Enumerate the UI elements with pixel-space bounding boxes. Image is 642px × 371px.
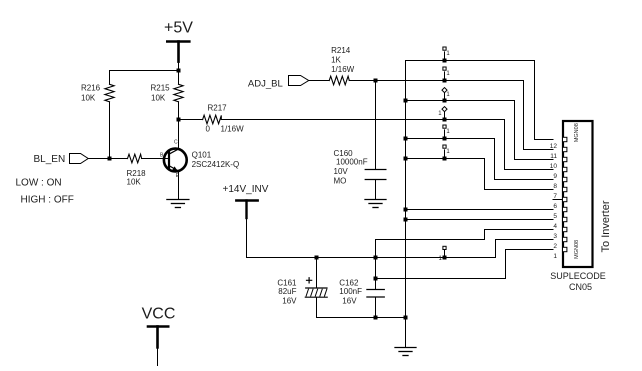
- wire BL_EN to R218: [88, 158, 127, 160]
- svg-text:CN05: CN05: [569, 282, 592, 292]
- ground Q101 emitter: [167, 200, 189, 208]
- port ADJ_BL: [248, 76, 309, 90]
- node rail C162 junction: [374, 256, 378, 260]
- svg-text:10K: 10K: [127, 177, 142, 186]
- svg-text:R217: R217: [208, 104, 228, 113]
- svg-text:16V: 16V: [282, 296, 297, 305]
- wire bus B to C160: [375, 81, 377, 170]
- wire bottom rail: [317, 317, 406, 319]
- node R214 output junction: [374, 79, 378, 83]
- svg-text:SUPLECODE: SUPLECODE: [550, 271, 606, 281]
- svg-text:Q101: Q101: [192, 151, 212, 160]
- svg-text:5: 5: [553, 213, 557, 220]
- svg-text:To Inverter: To Inverter: [600, 200, 612, 252]
- node bus A pin5 row: [404, 208, 408, 212]
- wire pin5 row: [406, 209, 554, 211]
- testpoint row3 diamond: [442, 88, 450, 103]
- power VCC: [142, 306, 176, 367]
- port BL_EN: [34, 154, 89, 165]
- svg-text:10V: 10V: [334, 167, 349, 176]
- svg-text:8: 8: [553, 183, 557, 190]
- svg-text:10K: 10K: [81, 94, 96, 103]
- testpoint rail: [439, 246, 447, 261]
- svg-text:ADJ_BL: ADJ_BL: [248, 79, 283, 90]
- power +5V: [164, 20, 193, 71]
- node bus A row3: [404, 99, 408, 103]
- power +14V_INV: [223, 184, 269, 258]
- capacitor C160: [334, 149, 386, 200]
- svg-text:10: 10: [550, 163, 558, 170]
- testpoint row1: [443, 47, 451, 63]
- svg-text:82uF: 82uF: [278, 287, 296, 296]
- svg-text:MGN08: MGN08: [574, 240, 580, 259]
- wire bus A ground: [405, 61, 407, 348]
- wire row2 R214 output to pin11 staircase: [349, 81, 553, 150]
- node bottom rail bus A: [404, 316, 408, 320]
- svg-text:4: 4: [553, 223, 557, 230]
- svg-text:HIGH : OFF: HIGH : OFF: [21, 195, 74, 206]
- svg-text:2SC2412K-Q: 2SC2412K-Q: [192, 160, 240, 169]
- svg-text:7: 7: [553, 193, 557, 200]
- resistor R214: [329, 46, 354, 85]
- svg-text:LOW : ON: LOW : ON: [16, 178, 62, 189]
- testpoint row6: [443, 145, 451, 161]
- transistor Q101: [160, 120, 239, 200]
- svg-text:12: 12: [550, 143, 558, 150]
- testpoint row4 diamond: [438, 107, 447, 122]
- node pin1 feeder junction: [374, 277, 378, 281]
- svg-text:1/16W: 1/16W: [221, 124, 245, 133]
- node bus A row5: [404, 137, 408, 141]
- wire row4 R217 output to pin9 staircase: [221, 120, 553, 170]
- wire pin3 feeder: [376, 230, 554, 258]
- svg-text:1: 1: [553, 253, 557, 260]
- node collector junction: [177, 118, 181, 122]
- svg-text:R215: R215: [151, 84, 171, 93]
- svg-text:16V: 16V: [342, 296, 357, 305]
- svg-text:10000nF: 10000nF: [336, 158, 368, 167]
- testpoint row5: [443, 125, 451, 141]
- svg-text:3: 3: [553, 233, 557, 240]
- wire row6 ground to pin7 staircase: [406, 159, 554, 190]
- wire +5V rail to R216: [110, 70, 179, 72]
- svg-text:9: 9: [553, 173, 557, 180]
- wire row5 ground to pin8 staircase: [406, 139, 554, 180]
- svg-text:6: 6: [553, 203, 557, 210]
- ground bus A: [395, 348, 416, 356]
- testpoint row2: [443, 67, 451, 83]
- connector CN05 body: [563, 121, 593, 267]
- wire pin4 row: [406, 219, 554, 221]
- svg-text:1K: 1K: [331, 56, 341, 65]
- capacitor C162: [339, 258, 384, 318]
- svg-text:100nF: 100nF: [339, 287, 362, 296]
- node bottom rail C162: [374, 316, 378, 320]
- svg-text:C: C: [174, 140, 178, 146]
- svg-text:VCC: VCC: [142, 306, 176, 323]
- svg-text:+5V: +5V: [164, 20, 193, 37]
- wire pin6 stub: [553, 199, 563, 201]
- resistor R218: [127, 154, 169, 186]
- node bus A pin4 row: [404, 218, 408, 222]
- svg-text:10K: 10K: [151, 94, 166, 103]
- wire +14V rail to pin2: [247, 240, 554, 258]
- connector CN05 pin numbers: [550, 143, 558, 260]
- resistor R217: [179, 104, 245, 134]
- svg-text:MO: MO: [334, 176, 347, 185]
- wire pin1 feeder: [376, 250, 554, 279]
- svg-text:11: 11: [550, 153, 557, 160]
- node rail C161 junction: [315, 256, 319, 260]
- wire row3 ground to pin10 staircase: [406, 101, 554, 160]
- svg-text:BL_EN: BL_EN: [34, 154, 66, 165]
- svg-text:2: 2: [553, 243, 557, 250]
- svg-text:1/16W: 1/16W: [331, 65, 355, 74]
- wire row1 ground to pin12 staircase: [406, 61, 554, 140]
- resistor R215: [151, 71, 184, 120]
- resistor R216: [81, 71, 114, 159]
- node bus A row6: [404, 157, 408, 161]
- wire ADJ_BL to R214: [309, 80, 330, 82]
- svg-text:R214: R214: [331, 46, 351, 55]
- svg-text:0: 0: [206, 124, 211, 133]
- svg-text:R216: R216: [81, 84, 101, 93]
- connector CN05 pin pads: [563, 137, 567, 251]
- ground C160: [365, 200, 386, 208]
- node base junction: [108, 157, 112, 161]
- svg-text:MGN08: MGN08: [574, 123, 580, 142]
- svg-text:+14V_INV: +14V_INV: [223, 184, 269, 195]
- node +5V junction: [177, 69, 181, 73]
- capacitor C161: [277, 258, 327, 318]
